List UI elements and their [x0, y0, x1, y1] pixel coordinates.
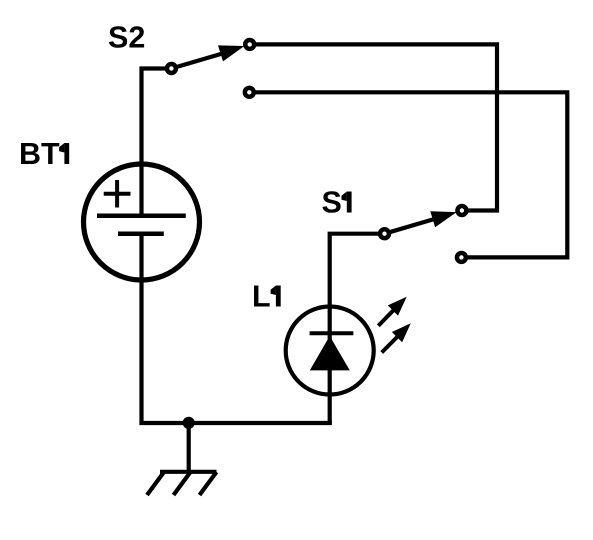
ground [147, 472, 217, 495]
wire S1 pole to LED top [330, 234, 385, 423]
LED L1 anode triangle [310, 336, 350, 370]
switch S2 blade [171, 45, 244, 68]
battery BT1 plus sign [104, 180, 131, 208]
svg-text:S: S [322, 186, 342, 220]
switch S1 throw contact top [457, 206, 466, 215]
wire top net: S2 throw to vertical x=497 down to S1 throw [250, 44, 497, 210]
LED L1 cathode bar [310, 331, 354, 335]
svg-text:S2: S2 [108, 21, 145, 55]
wire junction to ground symbol [187, 423, 191, 472]
switch S1 blade [385, 211, 457, 234]
svg-text:BT: BT [19, 137, 60, 171]
battery BT1 circle [84, 164, 200, 280]
LED L1 circle [286, 307, 374, 395]
wire from S2 pole to battery top [142, 69, 172, 218]
junction dot ground node [183, 417, 195, 429]
LED L1 light arrow upper [378, 297, 406, 326]
svg-text:L: L [252, 280, 271, 314]
switch S2 throw contact bottom [245, 88, 254, 97]
battery BT1 positive plate [97, 214, 186, 219]
switch S2 pole contact [167, 64, 176, 73]
wire battery bottom to ground node [142, 234, 332, 423]
switch S1 pole contact [380, 229, 389, 238]
battery BT1 negative plate [118, 231, 164, 236]
wire second net: S2 lower contact to vertical x=567 down to S1 lower contact [249, 92, 567, 257]
switch S2 throw contact top [245, 40, 254, 49]
switch S1 throw contact bottom [457, 253, 466, 262]
LED L1 light arrow lower [382, 323, 411, 352]
